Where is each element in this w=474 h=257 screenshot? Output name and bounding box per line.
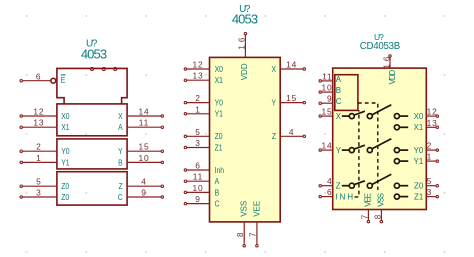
svg-text:Z: Z: [272, 132, 276, 142]
svg-text:Y1: Y1: [414, 157, 424, 166]
svg-text:4: 4: [141, 177, 147, 187]
svg-text:11: 11: [139, 118, 150, 128]
svg-text:VEE: VEE: [252, 201, 261, 217]
svg-text:1: 1: [36, 153, 42, 163]
svg-text:13: 13: [192, 71, 203, 81]
svg-text:VEE: VEE: [364, 193, 373, 206]
svg-text:B: B: [118, 158, 123, 168]
svg-text:12: 12: [33, 107, 44, 117]
svg-text:Z1: Z1: [414, 192, 424, 201]
svg-text:Z0: Z0: [61, 181, 69, 191]
svg-text:B: B: [215, 188, 220, 198]
svg-text:12: 12: [192, 60, 203, 70]
svg-text:X1: X1: [414, 123, 424, 132]
svg-text:14: 14: [138, 107, 149, 117]
svg-text:VSS: VSS: [240, 201, 249, 217]
svg-text:8: 8: [374, 212, 383, 219]
svg-text:7: 7: [361, 212, 370, 219]
svg-text:15: 15: [138, 142, 149, 152]
svg-text:Z0: Z0: [414, 181, 424, 190]
svg-text:14: 14: [286, 60, 297, 70]
svg-text:X: X: [336, 112, 342, 121]
svg-text:16: 16: [237, 35, 246, 50]
svg-text:14: 14: [321, 141, 332, 151]
svg-text:9: 9: [327, 94, 333, 104]
svg-text:Y0: Y0: [61, 146, 69, 156]
svg-text:A: A: [336, 75, 342, 84]
svg-text:Y: Y: [336, 146, 342, 155]
svg-text:9: 9: [195, 194, 201, 204]
svg-text:10: 10: [321, 83, 332, 93]
svg-text:15: 15: [321, 107, 332, 117]
svg-text:X1: X1: [61, 122, 69, 132]
svg-text:VDD: VDD: [388, 69, 397, 84]
svg-text:Z0: Z0: [61, 192, 69, 202]
svg-text:C: C: [336, 97, 342, 106]
svg-text:X1: X1: [215, 75, 223, 85]
svg-text:3: 3: [427, 187, 433, 197]
svg-text:4: 4: [327, 176, 333, 186]
svg-text:Y0: Y0: [414, 146, 424, 155]
svg-text:Y0: Y0: [215, 98, 223, 108]
svg-text:Z0: Z0: [215, 132, 223, 142]
svg-text:B: B: [336, 86, 341, 95]
svg-text:5: 5: [36, 177, 42, 187]
svg-text:3: 3: [195, 138, 201, 148]
svg-text:E: E: [61, 75, 66, 85]
svg-text:C: C: [215, 199, 220, 209]
svg-text:Inh: Inh: [215, 165, 224, 175]
svg-text:X0: X0: [61, 111, 69, 121]
svg-text:4053: 4053: [81, 47, 107, 62]
svg-text:X0: X0: [414, 112, 424, 121]
svg-text:9: 9: [141, 188, 147, 198]
svg-text:13: 13: [427, 118, 438, 128]
svg-text:4053: 4053: [232, 11, 258, 26]
svg-text:5: 5: [427, 176, 433, 186]
svg-text:X: X: [271, 64, 276, 74]
svg-text:16: 16: [383, 54, 392, 69]
svg-text:3: 3: [36, 188, 42, 198]
svg-text:4: 4: [289, 127, 295, 137]
svg-text:1: 1: [195, 104, 201, 114]
svg-text:6: 6: [195, 161, 201, 171]
svg-text:2: 2: [195, 93, 201, 103]
svg-text:11: 11: [322, 71, 333, 81]
svg-text:Z: Z: [336, 181, 341, 190]
svg-text:Y1: Y1: [215, 109, 223, 119]
svg-text:11: 11: [193, 172, 204, 182]
svg-text:Y1: Y1: [61, 158, 69, 168]
svg-text:2: 2: [427, 141, 433, 151]
svg-text:10: 10: [192, 183, 203, 193]
svg-text:VDD: VDD: [240, 63, 249, 80]
svg-text:13: 13: [33, 118, 44, 128]
svg-text:12: 12: [427, 107, 438, 117]
svg-text:1: 1: [427, 152, 433, 162]
svg-text:10: 10: [138, 153, 149, 163]
svg-text:6: 6: [36, 71, 42, 81]
svg-text:Z1: Z1: [215, 143, 223, 153]
svg-text:X0: X0: [215, 64, 223, 74]
svg-text:2: 2: [36, 142, 42, 152]
svg-text:Y: Y: [271, 98, 276, 108]
svg-text:Y: Y: [118, 146, 123, 156]
svg-text:Z: Z: [119, 181, 123, 191]
svg-text:C: C: [118, 192, 123, 202]
svg-text:15: 15: [286, 93, 297, 103]
svg-text:8: 8: [236, 230, 245, 237]
svg-text:X: X: [118, 111, 123, 121]
svg-text:7: 7: [249, 230, 258, 237]
svg-text:INH: INH: [335, 192, 355, 201]
svg-text:CD4053B: CD4053B: [360, 41, 400, 52]
svg-text:VSS: VSS: [377, 193, 386, 206]
svg-text:6: 6: [327, 187, 333, 197]
svg-text:5: 5: [195, 127, 201, 137]
